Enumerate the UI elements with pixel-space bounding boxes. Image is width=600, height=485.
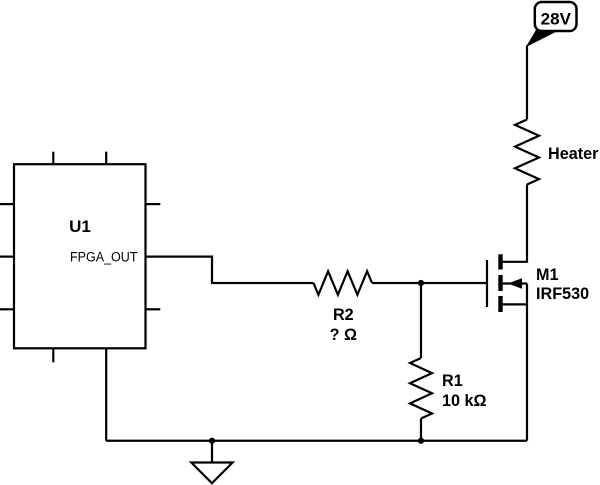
wire FPGA_OUT pin to R2 [146, 257, 314, 283]
svg-text:? Ω: ? Ω [330, 326, 357, 344]
svg-text:R1: R1 [442, 372, 463, 390]
wire M1 body/source to bottom rail [526, 284, 528, 441]
wire R2 to M1 gate [372, 282, 486, 284]
pin right 2 [146, 308, 161, 310]
channel bar bottom [498, 296, 502, 312]
wire Heater bottom to M1 drain [502, 185, 527, 262]
svg-text:10 kΩ: 10 kΩ [442, 392, 487, 410]
body lead with arrow [503, 282, 527, 284]
svg-text:Heater: Heater [548, 145, 599, 163]
pin right 1 [146, 203, 161, 205]
resistor R1 [410, 358, 487, 419]
svg-text:IRF530: IRF530 [536, 285, 589, 303]
wire junction to R1 top [420, 283, 422, 358]
wire 28V to Heater top [526, 46, 528, 120]
gate bar [486, 260, 488, 307]
resistor Heater [515, 120, 599, 185]
wire R1 bottom to rail [420, 419, 422, 441]
svg-text:28V: 28V [541, 10, 572, 29]
channel bar top [498, 254, 502, 269]
svg-text:FPGA_OUT: FPGA_OUT [70, 250, 138, 265]
voltage source V1 28V label bubble [527, 2, 577, 46]
wire bottom ground rail [106, 440, 527, 442]
node junction ground tap [209, 438, 215, 444]
IC U1 [0, 152, 160, 363]
ground symbol [191, 441, 232, 483]
node junction R1 bottom [418, 438, 424, 444]
pin top 2 [105, 152, 107, 165]
pin left 2 [0, 256, 14, 258]
svg-text:R2: R2 [333, 306, 354, 324]
transistor M1 IRF530 N-channel MOSFET [487, 254, 589, 312]
wire U1 bottom pin to ground rail [105, 348, 107, 440]
svg-text:M1: M1 [536, 266, 559, 284]
pin top 1 [52, 152, 54, 165]
pin left 3 [0, 308, 14, 310]
source lead [501, 303, 528, 305]
resistor R2 [314, 271, 373, 344]
node junction R2/R1/gate [418, 280, 424, 286]
svg-text:U1: U1 [69, 217, 91, 236]
channel bar middle [498, 275, 502, 291]
pin bottom 1 [52, 348, 54, 362]
pin left 1 [0, 203, 14, 205]
